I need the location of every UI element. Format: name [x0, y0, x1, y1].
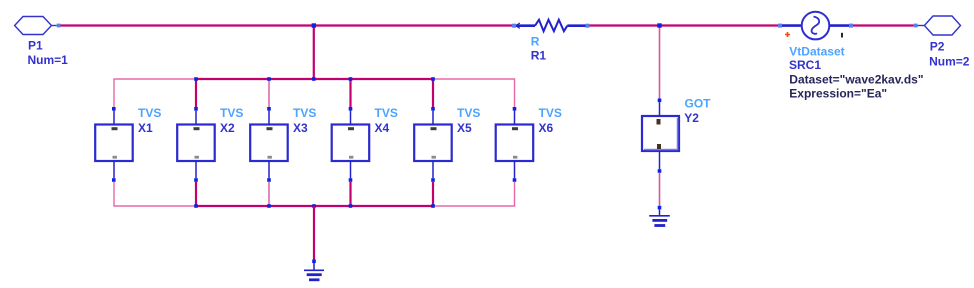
svg-text:X5: X5 [457, 121, 472, 135]
wire stub X5 top [432, 79, 434, 107]
pin ground Y2 [658, 206, 662, 210]
wire main left [61, 24, 513, 26]
wire Y2 to ground [659, 173, 661, 206]
pin Y2 top [658, 99, 662, 103]
svg-text:TVS: TVS [457, 106, 480, 120]
junction top rail feed [312, 77, 316, 81]
ground TVS bank [304, 263, 324, 280]
pin R1 right [586, 24, 590, 28]
wire bottom rail center [196, 205, 433, 207]
port P1 [15, 17, 69, 68]
subcircuit X2 [177, 106, 243, 182]
pin SRC1 left [778, 24, 782, 28]
svg-text:TVS: TVS [539, 106, 562, 120]
source SRC1 [782, 12, 924, 101]
svg-text:X4: X4 [375, 121, 390, 135]
port P2 [917, 16, 969, 68]
svg-text:X2: X2 [220, 121, 235, 135]
pin ground TVS [312, 260, 316, 264]
pin R1 left [512, 24, 516, 28]
subcircuit X4 [332, 106, 398, 182]
svg-text:TVS: TVS [375, 106, 398, 120]
svg-text:Num=1: Num=1 [28, 53, 69, 67]
wire stub X3 top [268, 79, 270, 107]
svg-text:SRC1: SRC1 [789, 58, 821, 72]
subcircuit X1 [95, 106, 161, 182]
junction top rail X5 [431, 77, 435, 81]
wire stub X5 bottom [432, 182, 434, 206]
junction bottom rail X3 [267, 204, 271, 208]
pin SRC1 right [849, 24, 853, 28]
svg-text:GOT: GOT [685, 96, 712, 110]
wire bottom rail to ground [313, 206, 315, 260]
subcircuit X3 [250, 106, 316, 182]
svg-text:P2: P2 [930, 39, 945, 53]
svg-text:TVS: TVS [293, 106, 316, 120]
svg-text:P1: P1 [28, 39, 43, 53]
svg-text:Dataset="wave2kav.ds": Dataset="wave2kav.ds" [789, 72, 923, 86]
resistor R1 [516, 20, 586, 63]
wire stub X4 top [349, 79, 351, 107]
junction top rail X3 [267, 77, 271, 81]
junction top rail X4 [349, 77, 353, 81]
wire feed to Y2 [659, 27, 661, 99]
wire stub X4 bottom [349, 182, 351, 206]
ground Y2 [649, 209, 670, 225]
wire main middle [590, 24, 779, 26]
junction on main wire at Y2 feed [657, 23, 661, 27]
wire main right [853, 24, 914, 26]
junction top rail X2 [194, 77, 198, 81]
svg-text:Expression="Ea": Expression="Ea" [789, 86, 887, 100]
wire stub X3 bottom [268, 182, 270, 206]
subcircuit X5 [414, 106, 480, 182]
junction bottom rail X2 [194, 204, 198, 208]
wire stub X2 bottom [195, 182, 197, 206]
svg-text:TVS: TVS [220, 106, 243, 120]
svg-text:VtDataset: VtDataset [789, 45, 844, 59]
wire bottom rail right [433, 182, 515, 206]
junction bottom rail X5 [431, 204, 435, 208]
junction bottom rail X4 [349, 204, 353, 208]
wire bottom rail left [114, 182, 196, 206]
svg-text:R1: R1 [531, 48, 547, 62]
svg-text:X6: X6 [539, 121, 554, 135]
svg-text:R: R [531, 35, 540, 49]
subcircuit Y2 [642, 96, 711, 169]
pin Y2 bottom [658, 169, 662, 173]
wire top rail left [114, 79, 196, 107]
svg-text:X1: X1 [138, 121, 153, 135]
wire feed to TVS bank [313, 26, 315, 80]
svg-text:TVS: TVS [138, 106, 161, 120]
svg-text:Y2: Y2 [684, 111, 699, 125]
junction bottom rail feed [312, 204, 316, 208]
wire top rail center [196, 78, 433, 80]
junction on main wire at TVS feed [312, 23, 316, 27]
wire top rail right [433, 79, 515, 107]
pin P1 [57, 24, 61, 28]
wire stub X2 top [195, 79, 197, 107]
subcircuit X6 [496, 106, 562, 182]
svg-text:X3: X3 [293, 121, 308, 135]
pin P2 [914, 24, 918, 28]
svg-text:Num=2: Num=2 [929, 54, 970, 68]
